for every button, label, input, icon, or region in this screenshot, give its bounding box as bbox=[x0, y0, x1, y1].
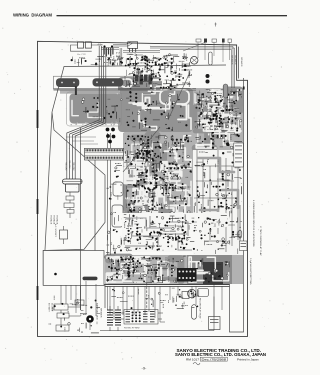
svg-text:B: VOLTAGE MEASURED WITH V.T.V: B: VOLTAGE MEASURED WITH V.T.V.M. 1 K AT… bbox=[252, 200, 255, 247]
svg-text:EXT BATT: EXT BATT bbox=[48, 303, 51, 313]
svg-text:SPEAKER: SPEAKER bbox=[100, 308, 103, 318]
svg-text:SPEAKER: SPEAKER bbox=[234, 55, 237, 65]
svg-text:YELLOW: YELLOW bbox=[68, 160, 70, 168]
svg-text:YELLOW: YELLOW bbox=[72, 162, 74, 170]
svg-text:RM 1017: RM 1017 bbox=[186, 357, 200, 361]
svg-text:A.C. SOCKET: A.C. SOCKET bbox=[54, 224, 57, 237]
svg-text:-9-: -9- bbox=[142, 366, 148, 371]
svg-text:SANYO ELECTRIC CO., LTD. OSAKA: SANYO ELECTRIC CO., LTD. OSAKA, JAPAN bbox=[175, 352, 266, 357]
svg-text:B+ 6V: B+ 6V bbox=[115, 52, 117, 58]
svg-text:Dec./78/2988: Dec./78/2988 bbox=[202, 357, 227, 361]
svg-text:RECORD PLAY HEAD: RECORD PLAY HEAD bbox=[199, 298, 202, 319]
svg-text:VOLTAGE: VOLTAGE bbox=[50, 215, 53, 225]
svg-text:P.B REC F.F REW: P.B REC F.F REW bbox=[124, 328, 140, 330]
svg-text:C: TAPE RUNNING AT PLAY.: C: TAPE RUNNING AT PLAY. bbox=[259, 226, 262, 256]
svg-text:Vcc 7.2V: Vcc 7.2V bbox=[77, 54, 86, 56]
svg-text:WIRING DIAGRAM: WIRING DIAGRAM bbox=[13, 12, 52, 18]
svg-text:Printed in Japan: Printed in Japan bbox=[237, 357, 259, 361]
svg-text:YELLOW: YELLOW bbox=[64, 162, 66, 170]
svg-text:SPEAKER: SPEAKER bbox=[240, 57, 243, 67]
svg-text:4.8m: 4.8m bbox=[98, 43, 103, 46]
svg-text:0.1µF A LIGHT EMITTING.: 0.1µF A LIGHT EMITTING. bbox=[249, 258, 252, 285]
svg-text:SPEAKER: SPEAKER bbox=[231, 55, 234, 65]
